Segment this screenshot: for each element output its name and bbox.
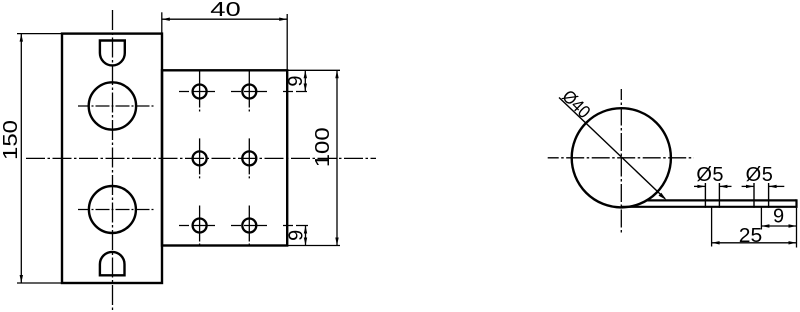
diameter 5 dim 1 left tail (694, 185, 705, 187)
svg-text:Ø5: Ø5 (746, 164, 774, 186)
svg-text:Ø40: Ø40 (558, 86, 594, 122)
hole r2c1 vertical centerline (199, 138, 201, 178)
svg-text:100: 100 (312, 127, 334, 167)
side hole 1 left edge (704, 183, 706, 208)
bottom arch cutout (100, 252, 125, 275)
svg-text:9: 9 (285, 230, 307, 241)
diameter 5 dim 1 left arrow (697, 185, 705, 188)
large hole 2 (89, 186, 136, 233)
middle plate outline (162, 70, 287, 245)
diameter 40 leader arrowhead (659, 193, 667, 200)
dimension 40 left extension (161, 12, 163, 33)
small hole r3c2 (242, 219, 256, 233)
diameter 5 dim 2 left arrow (746, 185, 754, 188)
hole r1c1 vertical centerline (199, 72, 201, 112)
diameter 40 leader line (559, 98, 665, 199)
top D cutout (100, 41, 125, 66)
hole 1 horizontal centerline (78, 105, 155, 107)
small hole r1c1 (193, 85, 207, 99)
row3 centerline (179, 225, 308, 227)
dimension 100 arrow down (335, 238, 338, 246)
bar right end cap (795, 199, 797, 208)
bar end extension line (796, 208, 798, 248)
hole r2c2 vertical centerline (248, 138, 250, 178)
right view circle (572, 108, 671, 207)
hole r1c2 vertical centerline (248, 72, 250, 112)
dimension 150 extension line bottom (17, 282, 62, 284)
bottom edge extension to 100 dim (287, 245, 340, 247)
side hole 2 left edge (753, 183, 755, 208)
right view horizontal centerline (548, 157, 694, 159)
hole 2 horizontal centerline (78, 209, 156, 211)
small hole r2c2 (242, 151, 256, 165)
dimension 150 extension line top (17, 33, 62, 35)
dimension 9 right view line (761, 225, 796, 227)
dimension 9 bottom arrow up (304, 226, 307, 234)
side hole 2 center extension (760, 207, 762, 230)
dimension 9 right view arrow right (789, 224, 797, 227)
large hole 1 (89, 82, 136, 129)
left plate outline (62, 34, 162, 283)
side hole 1 right edge (718, 183, 720, 208)
dimension 25 line (712, 242, 797, 244)
hole r3c1 vertical centerline (199, 206, 201, 246)
dimension 9 right view arrow left (761, 224, 769, 227)
dimension 100 arrow up (335, 70, 338, 78)
dimension 25 arrow left (712, 241, 720, 244)
small hole r1c2 (242, 85, 256, 99)
diameter 5 dim 2 right arrow (769, 185, 777, 188)
bar bottom edge (621, 206, 797, 208)
dimension 9 top line (304, 70, 306, 91)
dimension 9 top arrow up (304, 70, 307, 78)
side hole 2 right edge (768, 183, 770, 208)
diameter 5 dim 1 right tail (719, 185, 731, 187)
diameter 5 dim 2 right tail (769, 185, 785, 187)
side hole 1 center extension (711, 207, 713, 247)
svg-text:9: 9 (285, 75, 307, 86)
top edge extension to 100 dim (287, 69, 340, 71)
dimension 150 arrow down (20, 275, 23, 283)
svg-text:150: 150 (0, 120, 22, 160)
right view vertical centerline (620, 89, 622, 234)
dimension 150 line (20, 34, 22, 283)
dimension 25 arrow right (789, 241, 797, 244)
dimension 9 top arrow down (304, 84, 307, 92)
dimension 9 bottom arrow down (304, 238, 307, 246)
dimension 9 bottom line (305, 226, 307, 246)
dimension 40 right extension (286, 14, 288, 70)
row1 centerline (179, 91, 307, 93)
svg-text:9: 9 (773, 205, 784, 227)
small hole r2c1 (193, 151, 207, 165)
dimension 100 line (336, 70, 338, 245)
diameter 5 dim 2 left tail (742, 185, 754, 187)
dimension 40 line (162, 18, 287, 20)
diameter 5 dim 1 right arrow (719, 185, 727, 188)
svg-text:25: 25 (739, 225, 763, 247)
bar top edge (647, 199, 797, 201)
row2 long centerline (26, 157, 376, 159)
dimension 40 arrow left (162, 18, 170, 21)
hole r3c2 vertical centerline (248, 206, 250, 246)
left plate vertical centerline (112, 10, 114, 310)
svg-text:Ø5: Ø5 (696, 164, 724, 186)
dimension 150 arrow up (20, 34, 23, 42)
small hole r3c1 (193, 219, 207, 233)
svg-text:40: 40 (210, 0, 241, 21)
dimension 40 arrow right (279, 18, 287, 21)
